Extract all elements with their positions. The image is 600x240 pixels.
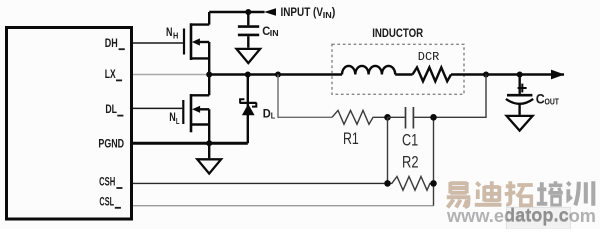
svg-text:R2: R2 [402, 153, 419, 172]
svg-text:CSH: CSH [99, 175, 115, 189]
svg-text:D: D [263, 109, 271, 121]
svg-text:H: H [173, 31, 178, 41]
svg-text:N: N [166, 25, 173, 39]
svg-text:DCR: DCR [418, 50, 440, 64]
svg-text:PGND: PGND [98, 137, 124, 151]
svg-text:INPUT (V: INPUT (V [281, 5, 324, 19]
svg-text:INDUCTOR: INDUCTOR [372, 28, 424, 40]
svg-text:C1: C1 [402, 130, 418, 149]
svg-text:L: L [176, 116, 180, 126]
svg-text:R1: R1 [343, 129, 359, 148]
svg-text:IN: IN [323, 10, 332, 20]
svg-text:N: N [169, 110, 176, 124]
svg-text:DH: DH [105, 36, 118, 50]
svg-text:CSL: CSL [99, 195, 114, 209]
svg-text:L: L [271, 111, 276, 121]
svg-text:LX: LX [105, 67, 116, 81]
svg-text:): ) [332, 5, 336, 19]
svg-text:OUT: OUT [545, 97, 560, 107]
svg-text:DL: DL [105, 102, 117, 116]
svg-text:IN: IN [270, 28, 279, 38]
